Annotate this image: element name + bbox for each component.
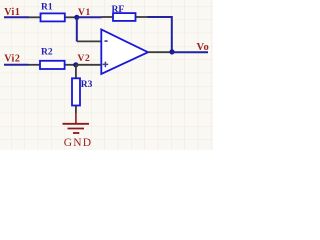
wire V1 to RF bbox=[77, 16, 102, 18]
svg-text:GND: GND bbox=[64, 137, 93, 149]
svg-text:V2: V2 bbox=[78, 54, 91, 64]
wire output to Vo bbox=[172, 51, 208, 53]
svg-text:R1: R1 bbox=[41, 2, 53, 12]
svg-text:RF: RF bbox=[112, 5, 125, 15]
node V2 junction bbox=[73, 62, 78, 67]
op-amp non-inverting input pin bbox=[76, 64, 102, 66]
resistor R1 bbox=[29, 13, 75, 21]
resistor R3 bbox=[72, 65, 80, 113]
op-amp output pin bbox=[148, 51, 172, 53]
resistor RF bbox=[102, 13, 148, 21]
svg-text:Vo: Vo bbox=[197, 42, 210, 53]
wire Vi1 input (net Vi1) bbox=[4, 16, 29, 18]
node output junction bbox=[169, 49, 174, 54]
ground GND power port bbox=[63, 113, 90, 133]
svg-text:Vi2: Vi2 bbox=[4, 54, 20, 65]
svg-text:Vi1: Vi1 bbox=[4, 7, 20, 18]
svg-text:R3: R3 bbox=[81, 80, 93, 90]
op-amp inverting input pin bbox=[77, 40, 102, 42]
node V1 junction bbox=[74, 15, 79, 20]
wire RF to output (feedback) bbox=[148, 17, 172, 52]
resistor R2 bbox=[29, 61, 74, 69]
wire V1 down to inverting input bbox=[76, 17, 78, 41]
wire Vi2 input (net Vi2) bbox=[4, 64, 29, 66]
svg-text:R2: R2 bbox=[41, 48, 53, 58]
op-amp U1 bbox=[101, 30, 148, 75]
